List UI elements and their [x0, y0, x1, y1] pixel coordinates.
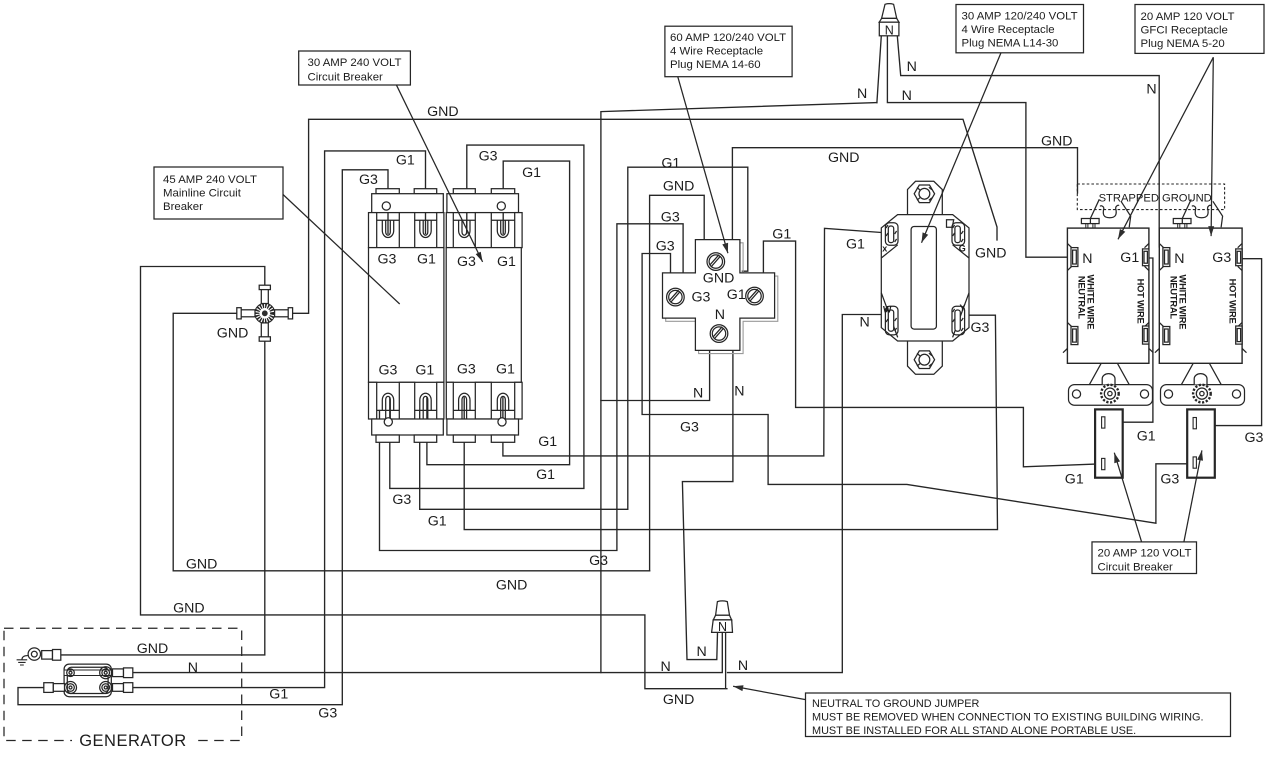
bottom mounting ear with hex nut: [908, 341, 943, 374]
NEMA 14-60 receptacle: [663, 240, 778, 354]
callout box 20 AMP 120 VOLT GFCI: [1135, 5, 1264, 54]
svg-text:G1: G1: [1120, 250, 1139, 266]
leader arrow to right GFCI: [1211, 57, 1213, 236]
svg-text:G3: G3: [392, 492, 411, 508]
svg-text:GND: GND: [186, 556, 218, 572]
svg-text:G1: G1: [269, 687, 288, 703]
GFCI receptacle left: [1063, 219, 1153, 406]
wire N 14-60 right pin to bottom wire nut: [682, 351, 733, 660]
svg-text:G1: G1: [727, 287, 746, 303]
svg-text:GND: GND: [703, 270, 735, 286]
svg-text:4 Wire Receptacle: 4 Wire Receptacle: [962, 24, 1055, 36]
wire G1 breaker pole2 bottom to 14-60 G1 terminal: [420, 167, 748, 509]
generator ground ring lug: [28, 648, 40, 660]
bottom tabs: [376, 435, 399, 442]
center face plate: [911, 227, 936, 330]
20A circuit breaker right: [1187, 409, 1215, 477]
wire nut top N: [879, 4, 899, 36]
svg-text:30 AMP 240 VOLT: 30 AMP 240 VOLT: [308, 57, 402, 69]
callout box 60 AMP 120/240 VOLT receptacle: [665, 26, 792, 76]
svg-text:G1: G1: [496, 361, 515, 377]
svg-text:G: G: [959, 244, 966, 254]
svg-text:Circuit Breaker: Circuit Breaker: [1098, 562, 1174, 574]
svg-text:Circuit Breaker: Circuit Breaker: [308, 72, 384, 84]
svg-text:HOT WIRE: HOT WIRE: [1228, 279, 1238, 324]
svg-text:HOT WIRE: HOT WIRE: [1136, 279, 1146, 324]
wire G3 14-60 inner loop to right 20A breaker: [642, 254, 1193, 524]
screw G3 on 14-60: [667, 288, 685, 306]
svg-text:4 Wire Receptacle: 4 Wire Receptacle: [670, 46, 763, 58]
ground strap hook right: [1192, 205, 1211, 217]
svg-text:G3: G3: [457, 254, 476, 270]
svg-text:GND: GND: [496, 578, 528, 594]
screw N on 14-60: [710, 325, 728, 343]
terminal X (G1): [885, 223, 898, 245]
top teeth: [369, 213, 377, 248]
terminal Y (G3): [952, 306, 965, 335]
svg-text:GND: GND: [217, 325, 249, 341]
svg-text:Plug NEMA 5-20: Plug NEMA 5-20: [1141, 38, 1225, 50]
svg-text:G1: G1: [417, 252, 436, 268]
svg-text:N: N: [661, 659, 671, 675]
svg-text:G1: G1: [661, 156, 680, 172]
leader arrow to 30A breaker: [397, 85, 483, 262]
svg-text:G3: G3: [318, 705, 337, 721]
svg-text:GND: GND: [828, 150, 860, 166]
svg-text:G3: G3: [1245, 430, 1264, 446]
svg-text:N: N: [693, 386, 703, 402]
svg-text:G3: G3: [1212, 250, 1231, 266]
generator N ring lug: [100, 667, 112, 679]
svg-text:Mainline Circuit: Mainline Circuit: [163, 188, 242, 200]
GFCI receptacle right: [1155, 219, 1247, 406]
45A mainline and 30A circuit breaker block: [369, 189, 523, 443]
svg-text:Plug NEMA L14-30: Plug NEMA L14-30: [962, 38, 1059, 50]
wire G3 breaker pole1 bottom loop to 14-60 left arm: [380, 224, 684, 551]
top prong cups: [377, 220, 400, 237]
svg-text:NEUTRAL: NEUTRAL: [1169, 276, 1179, 320]
terminal W (N): [885, 306, 898, 335]
octagonal body: [881, 215, 969, 341]
strapped ground dashed box: [1077, 184, 1224, 210]
wire N sloped top run to N bus: [601, 103, 877, 401]
wire G1 breaker pole4 bottom to L14-30 X terminal: [503, 228, 886, 456]
20A circuit breaker left: [1095, 409, 1123, 477]
svg-text:MUST BE INSTALLED FOR ALL STAN: MUST BE INSTALLED FOR ALL STAND ALONE PO…: [812, 725, 1136, 737]
top mounting ear with hex nut: [908, 181, 943, 214]
svg-text:G1: G1: [522, 165, 541, 181]
wire G1 breaker pole4 top loop to pole2 bottom: [427, 161, 570, 465]
svg-text:GND: GND: [173, 600, 205, 616]
callout box 45 AMP 240 VOLT Mainline Circuit Breaker: [154, 167, 283, 219]
svg-text:N: N: [907, 59, 917, 75]
bottom prong cups: [377, 393, 400, 419]
callout box NEUTRAL TO GROUND JUMPER note: [806, 693, 1231, 737]
svg-text:W: W: [883, 305, 892, 315]
wire nut bottom N (neutral-ground jumper): [712, 601, 733, 689]
svg-text:G3: G3: [378, 252, 397, 268]
svg-text:G3: G3: [692, 290, 711, 306]
svg-text:N: N: [1082, 251, 1092, 267]
wire GND cross-lug left down to bottom run: [173, 313, 649, 571]
NEMA L14-30 twist lock receptacle: [881, 181, 969, 374]
wire N wire-nut to left GFCI: [877, 36, 1068, 257]
svg-text:Y: Y: [960, 303, 966, 313]
terminal G (GND): [947, 220, 965, 245]
svg-text:GND: GND: [975, 246, 1007, 262]
svg-text:GND: GND: [1041, 134, 1073, 150]
wire N wire-nut to right GFCI: [897, 36, 1163, 247]
bottom teeth: [369, 382, 377, 419]
svg-text:G3: G3: [457, 361, 476, 377]
svg-text:G3: G3: [359, 172, 378, 188]
leader arrow to left GFCI: [1118, 57, 1213, 239]
wire G3 generator loop over breaker pole 1: [18, 170, 388, 705]
svg-text:20 AMP 120 VOLT: 20 AMP 120 VOLT: [1141, 11, 1235, 23]
wire GND cross-lug top to generator loop and jumper: [141, 267, 727, 689]
top tabs: [376, 189, 399, 194]
leader arrow to neutral-ground jumper: [733, 686, 806, 699]
screw GND on 14-60: [707, 253, 725, 271]
svg-text:G1: G1: [1065, 472, 1084, 488]
leader arrow to left 20A breaker: [1114, 453, 1141, 542]
svg-text:GND: GND: [137, 641, 169, 657]
callout box 20 AMP 120 VOLT Circuit Breaker: [1092, 542, 1197, 574]
svg-text:GFCI Receptacle: GFCI Receptacle: [1141, 25, 1228, 37]
svg-text:GND: GND: [663, 178, 695, 194]
screw G1 on 14-60: [746, 287, 764, 305]
wire GND cross-lug bottom to generator lug: [61, 341, 265, 655]
svg-text:N: N: [857, 86, 867, 102]
svg-text:N: N: [902, 88, 912, 104]
svg-text:NEUTRAL TO GROUND JUMPER: NEUTRAL TO GROUND JUMPER: [812, 698, 980, 710]
svg-text:GND: GND: [663, 692, 695, 708]
svg-text:G1: G1: [415, 363, 434, 379]
svg-text:N: N: [1174, 251, 1184, 267]
svg-text:STRAPPED GROUND: STRAPPED GROUND: [1099, 193, 1212, 205]
svg-text:G1: G1: [538, 434, 557, 450]
svg-text:G3: G3: [379, 363, 398, 379]
svg-text:G3: G3: [479, 148, 498, 164]
wire N 14-60 left pin down to bus: [601, 351, 710, 673]
ground distribution cross lug: [237, 285, 293, 341]
svg-text:N: N: [718, 620, 727, 634]
svg-text:G1: G1: [497, 254, 516, 270]
svg-text:60 AMP 120/240 VOLT: 60 AMP 120/240 VOLT: [670, 32, 786, 44]
corner pocket diagonals: [881, 245, 969, 338]
ground strap hook left: [1100, 205, 1119, 217]
wire N generator bus to wire nut: [133, 632, 723, 672]
wire G1 breaker pole3 top loop to pole1 bottom: [390, 145, 584, 488]
svg-text:G3: G3: [589, 553, 608, 569]
svg-text:30 AMP 120/240 VOLT: 30 AMP 120/240 VOLT: [962, 11, 1078, 23]
svg-text:Breaker: Breaker: [163, 201, 203, 213]
svg-text:x: x: [882, 244, 887, 254]
wire GND loop into 14-60 top arm: [650, 195, 705, 571]
bottom caps: [372, 419, 444, 435]
svg-text:N: N: [860, 314, 870, 330]
svg-text:45 AMP 240 VOLT: 45 AMP 240 VOLT: [163, 174, 257, 186]
leader arrow to NEMA L14-30: [922, 53, 1002, 243]
svg-text:N: N: [1146, 81, 1156, 97]
svg-text:G3: G3: [656, 238, 675, 254]
wire G1 L14-30 east loop to left 20A breaker: [763, 241, 1101, 467]
svg-text:N: N: [734, 384, 744, 400]
svg-text:N: N: [715, 307, 725, 323]
svg-text:N: N: [697, 644, 707, 660]
wire G3 right 20A breaker to right GFCI: [1198, 259, 1262, 426]
wire G1 left 20A breaker to left GFCI: [1105, 258, 1153, 422]
svg-text:N: N: [885, 23, 894, 37]
svg-text:G1: G1: [536, 467, 555, 483]
svg-text:Plug NEMA 14-60: Plug NEMA 14-60: [670, 59, 761, 71]
generator dashed enclosure: [4, 628, 242, 740]
svg-text:G1: G1: [428, 513, 447, 529]
generator G3 ring lug: [65, 682, 77, 694]
wire GND receptacle 14-60 to strapped ground: [732, 148, 1077, 241]
svg-text:G3: G3: [661, 210, 680, 226]
svg-text:G1: G1: [846, 237, 865, 253]
generator terminal block: [64, 664, 111, 697]
leader line to mainline breaker: [283, 195, 400, 305]
top caps: [372, 194, 444, 213]
svg-text:G3: G3: [971, 320, 990, 336]
svg-text:N: N: [188, 660, 198, 676]
svg-text:N: N: [738, 658, 748, 674]
svg-text:MUST BE REMOVED WHEN CONNECTIO: MUST BE REMOVED WHEN CONNECTION TO EXIST…: [812, 712, 1204, 724]
svg-text:G1: G1: [772, 226, 791, 242]
svg-text:G3: G3: [1160, 471, 1179, 487]
svg-text:G1: G1: [1137, 429, 1156, 445]
callout box 30 AMP 240 VOLT Circuit Breaker: [299, 51, 411, 85]
wire N jumper to L14-30 W terminal: [728, 315, 882, 673]
svg-text:G3: G3: [680, 419, 699, 435]
leader arrow to right 20A breaker: [1184, 450, 1202, 542]
breaker bodies: [369, 248, 444, 383]
leader arrow to NEMA 14-60: [678, 77, 728, 253]
wire GND cross-lug right to top bus: [293, 119, 997, 313]
svg-text:NEUTRAL: NEUTRAL: [1077, 276, 1087, 320]
generator G1 ring lug: [100, 682, 112, 694]
generator frame ground symbol: [17, 656, 28, 665]
svg-text:GND: GND: [427, 104, 459, 120]
wire G3 breaker pole3 bottom to L14-30 Y terminal: [464, 315, 997, 529]
svg-text:GENERATOR: GENERATOR: [79, 732, 187, 750]
svg-text:20 AMP 120 VOLT: 20 AMP 120 VOLT: [1098, 548, 1192, 560]
callout box 30 AMP 120/240 VOLT L14-30: [956, 5, 1084, 53]
wire G1 generator loop over breaker pole 2: [133, 151, 426, 688]
svg-text:G1: G1: [396, 153, 415, 169]
